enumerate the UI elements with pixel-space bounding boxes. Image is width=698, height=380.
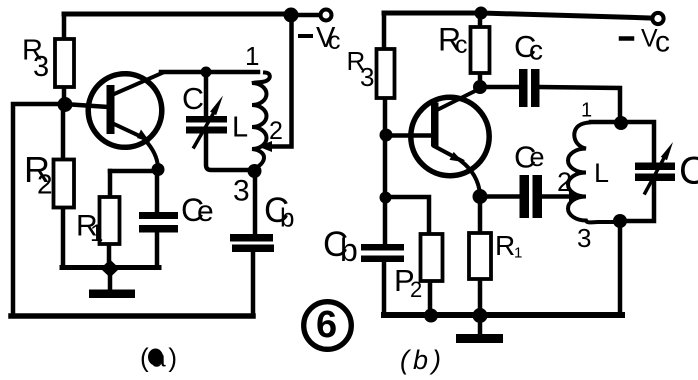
svg-text:1: 1 [514,245,522,262]
svg-text:c: c [529,35,543,66]
svg-text:2: 2 [37,169,53,200]
svg-text:2: 2 [269,117,283,145]
svg-text:e: e [530,142,545,172]
svg-text:(b): (b) [400,345,441,375]
svg-text:L: L [594,158,609,188]
svg-text:R: R [495,230,515,261]
svg-text:C: C [679,150,698,193]
svg-text:c: c [655,26,670,59]
svg-text:C: C [182,82,204,116]
svg-text:b: b [340,232,358,268]
svg-text:L: L [232,112,248,144]
svg-text:1: 1 [90,220,103,247]
svg-text:3: 3 [33,51,49,83]
svg-text:3: 3 [233,175,250,208]
svg-text:c: c [328,27,341,55]
svg-text:6: 6 [316,304,337,346]
svg-text:e: e [197,195,214,228]
svg-text:3: 3 [360,62,374,92]
svg-text:1: 1 [245,41,259,71]
svg-text:3: 3 [577,223,591,253]
svg-text:2: 2 [410,277,422,302]
svg-text:1: 1 [581,100,592,122]
svg-text:2: 2 [557,167,572,197]
svg-text:b: b [280,203,294,233]
svg-text:c: c [455,31,468,59]
